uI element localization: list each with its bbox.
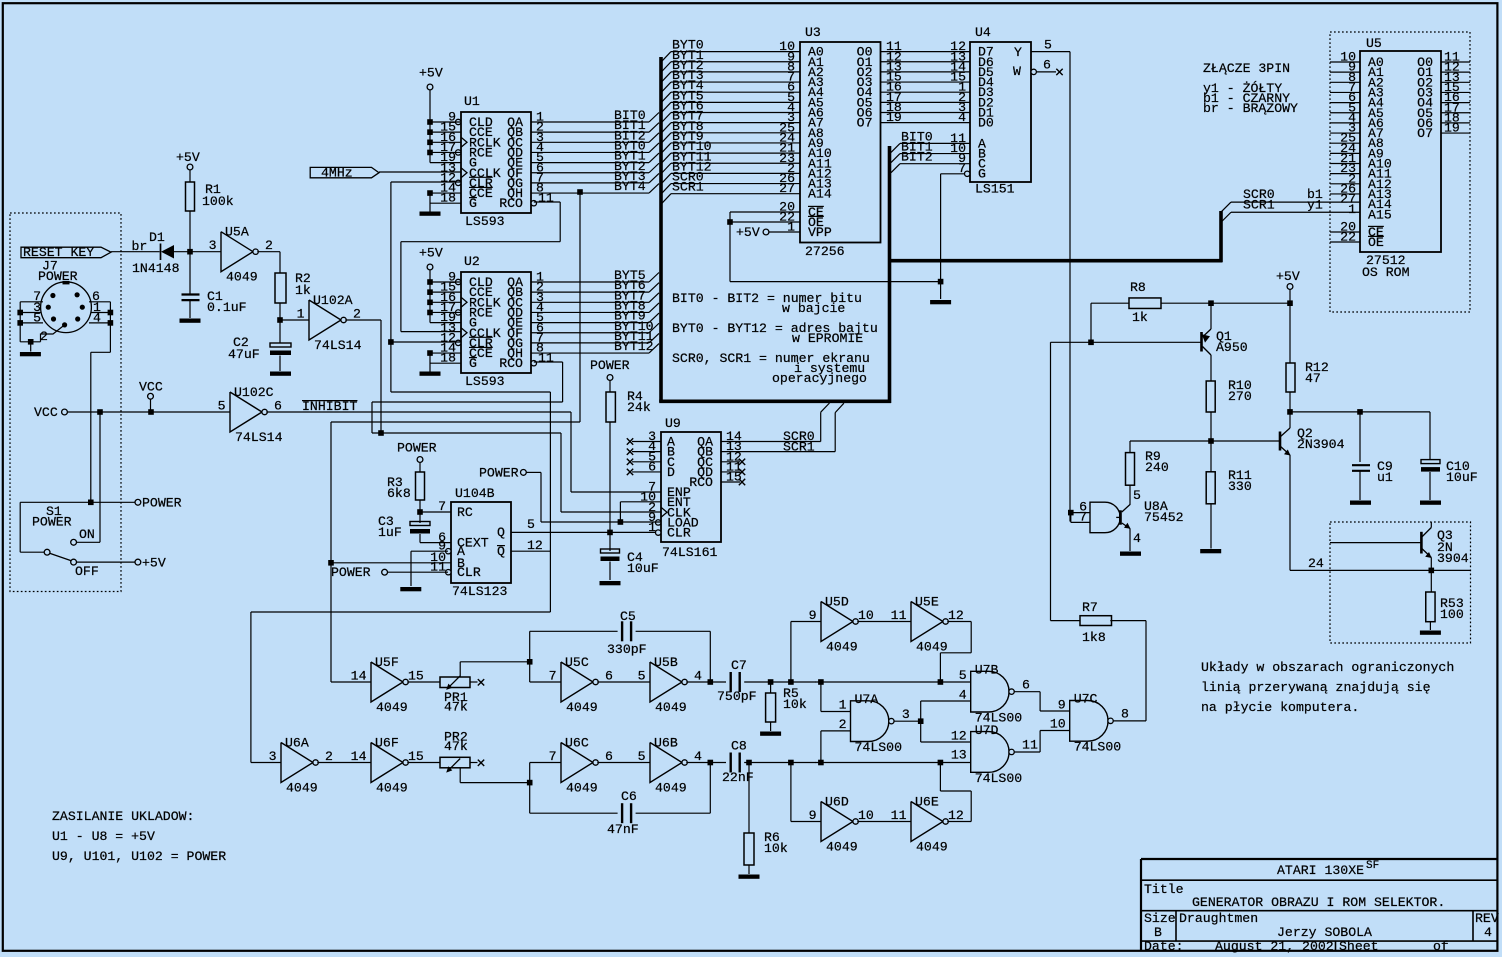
svg-text:5: 5 (527, 517, 535, 532)
svg-text:24k: 24k (627, 400, 651, 415)
svg-text:5: 5 (1133, 488, 1141, 503)
svg-text:74LS00: 74LS00 (855, 740, 903, 755)
svg-text:240: 240 (1145, 460, 1169, 475)
svg-text:6: 6 (1043, 58, 1051, 73)
svg-text:11: 11 (538, 351, 554, 366)
svg-text:74LS161: 74LS161 (662, 545, 717, 560)
svg-text:VCC: VCC (139, 380, 163, 395)
svg-text:1k: 1k (1132, 310, 1148, 325)
svg-text:3: 3 (209, 238, 217, 253)
svg-text:270: 270 (1228, 389, 1252, 404)
svg-text:linią przerywaną znajdują się: linią przerywaną znajdują się (1201, 680, 1431, 695)
svg-text:7: 7 (1079, 510, 1087, 525)
svg-text:RCO: RCO (689, 475, 713, 490)
svg-text:CLR: CLR (667, 526, 691, 541)
svg-text:4049: 4049 (286, 781, 318, 796)
svg-text:10k: 10k (783, 697, 807, 712)
svg-text:w bajcie: w bajcie (782, 301, 845, 316)
svg-text:LS593: LS593 (465, 374, 505, 389)
svg-text:4: 4 (1484, 925, 1492, 940)
svg-text:ATARI 130XE: ATARI 130XE (1277, 863, 1364, 878)
svg-text:u1: u1 (1377, 470, 1393, 485)
svg-text:U5D: U5D (825, 595, 849, 610)
svg-text:1: 1 (839, 698, 847, 713)
svg-text:BYT12: BYT12 (614, 339, 654, 354)
svg-text:75452: 75452 (1144, 510, 1184, 525)
svg-text:13: 13 (951, 748, 967, 763)
svg-text:7: 7 (549, 668, 557, 683)
svg-text:U5A: U5A (225, 225, 249, 240)
svg-text:Q: Q (497, 525, 505, 540)
svg-text:3: 3 (269, 749, 277, 764)
svg-text:U9, U101, U102 = POWER: U9, U101, U102 = POWER (52, 849, 226, 864)
svg-text:9: 9 (809, 608, 817, 623)
svg-text:D0: D0 (978, 116, 994, 131)
svg-text:+5V: +5V (176, 150, 200, 165)
svg-text:BIT2: BIT2 (901, 150, 933, 165)
svg-text:9: 9 (1058, 697, 1066, 712)
svg-text:7: 7 (438, 499, 446, 514)
svg-text:11: 11 (891, 808, 907, 823)
svg-text:4049: 4049 (376, 700, 408, 715)
svg-text:2: 2 (265, 238, 273, 253)
svg-text:4: 4 (1133, 531, 1141, 546)
svg-text:Q: Q (497, 544, 505, 559)
svg-text:w EPROMIE: w EPROMIE (792, 331, 863, 346)
svg-text:August 21, 2002: August 21, 2002 (1215, 939, 1334, 954)
svg-text:24: 24 (1308, 556, 1324, 571)
svg-text:11: 11 (1022, 738, 1038, 753)
svg-text:14: 14 (351, 668, 367, 683)
svg-text:POWER: POWER (331, 565, 371, 580)
svg-text:A14: A14 (808, 187, 832, 202)
svg-text:+5V: +5V (736, 225, 760, 240)
svg-text:1: 1 (297, 306, 305, 321)
svg-text:U1 - U8 = +5V: U1 - U8 = +5V (52, 829, 155, 844)
svg-text:U5: U5 (1366, 36, 1382, 51)
svg-text:U6A: U6A (285, 736, 309, 751)
svg-text:U1: U1 (464, 94, 480, 109)
svg-text:POWER: POWER (479, 466, 519, 481)
svg-text:4049: 4049 (655, 781, 687, 796)
svg-text:8: 8 (1121, 707, 1129, 722)
svg-text:330: 330 (1228, 479, 1252, 494)
svg-text:74LS00: 74LS00 (975, 771, 1023, 786)
svg-text:4049: 4049 (226, 270, 258, 285)
svg-text:9: 9 (809, 808, 817, 823)
svg-text:C7: C7 (731, 658, 747, 673)
svg-text:O7: O7 (857, 116, 873, 131)
svg-text:A950: A950 (1216, 340, 1248, 355)
svg-text:G: G (978, 167, 986, 182)
svg-text:SCR1: SCR1 (783, 440, 815, 455)
svg-text:47k: 47k (444, 700, 468, 715)
svg-text:W: W (1013, 64, 1021, 79)
svg-text:POWER: POWER (38, 269, 78, 284)
svg-text:Jerzy SOBOLA: Jerzy SOBOLA (1277, 925, 1372, 940)
svg-text:4049: 4049 (566, 700, 598, 715)
svg-text:10uF: 10uF (1446, 470, 1478, 485)
svg-text:Draughtmen: Draughtmen (1179, 911, 1258, 926)
svg-text:10: 10 (858, 808, 874, 823)
svg-text:+5V: +5V (419, 246, 443, 261)
svg-text:br - BRĄZOWY: br - BRĄZOWY (1203, 101, 1298, 116)
svg-text:REV: REV (1475, 911, 1499, 926)
svg-text:5: 5 (638, 749, 646, 764)
svg-text:4: 4 (694, 749, 702, 764)
svg-text:U6F: U6F (375, 736, 399, 751)
svg-text:1N4148: 1N4148 (132, 261, 180, 276)
svg-text:R7: R7 (1082, 600, 1098, 615)
svg-text:OE: OE (1368, 235, 1384, 250)
svg-text:47: 47 (1305, 371, 1321, 386)
svg-text:15: 15 (408, 749, 424, 764)
svg-text:B: B (1154, 925, 1162, 940)
svg-text:SCR1: SCR1 (1243, 197, 1275, 212)
svg-text:1k8: 1k8 (1082, 630, 1106, 645)
svg-text:2: 2 (839, 717, 847, 732)
svg-text:R8: R8 (1130, 280, 1146, 295)
svg-text:4049: 4049 (916, 840, 948, 855)
svg-text:CLR: CLR (457, 565, 481, 580)
svg-text:ZASILANIE UKLADOW:: ZASILANIE UKLADOW: (52, 809, 194, 824)
svg-text:27: 27 (779, 181, 795, 196)
svg-text:RCO: RCO (499, 196, 523, 211)
svg-text:5: 5 (1044, 38, 1052, 53)
svg-text:of: of (1433, 939, 1449, 954)
svg-text:U6D: U6D (825, 795, 849, 810)
svg-text:VCC: VCC (34, 405, 58, 420)
svg-text:SF: SF (1366, 860, 1379, 872)
svg-text:operacyjnego: operacyjnego (772, 371, 867, 386)
svg-text:U9: U9 (665, 416, 681, 431)
svg-text:4: 4 (694, 668, 702, 683)
svg-text:RCO: RCO (499, 356, 523, 371)
svg-text:Title: Title (1144, 882, 1184, 897)
svg-text:10: 10 (858, 608, 874, 623)
svg-text:C5: C5 (620, 609, 636, 624)
svg-text:Sheet: Sheet (1339, 939, 1379, 954)
svg-text:BYT4: BYT4 (614, 179, 646, 194)
svg-text:15: 15 (408, 668, 424, 683)
svg-text:1uF: 1uF (378, 525, 402, 540)
svg-text:10: 10 (1050, 717, 1066, 732)
svg-text:5: 5 (959, 668, 967, 683)
svg-text:D1: D1 (149, 230, 165, 245)
svg-text:7: 7 (549, 749, 557, 764)
svg-text:U102C: U102C (234, 385, 274, 400)
svg-text:U7D: U7D (975, 723, 999, 738)
svg-text:U6C: U6C (565, 736, 589, 751)
svg-text:ZŁĄCZE 3PIN: ZŁĄCZE 3PIN (1203, 61, 1290, 76)
svg-text:OS ROM: OS ROM (1362, 265, 1410, 280)
svg-text:POWER: POWER (590, 358, 630, 373)
svg-text:12: 12 (948, 808, 964, 823)
svg-text:O7: O7 (1417, 126, 1433, 141)
svg-text:6: 6 (605, 749, 613, 764)
svg-text:LS593: LS593 (465, 214, 505, 229)
svg-text:100: 100 (1440, 607, 1464, 622)
svg-text:U5B: U5B (654, 655, 678, 670)
svg-text:VPP: VPP (808, 225, 832, 240)
svg-text:na płycie komputera.: na płycie komputera. (1201, 700, 1359, 715)
svg-text:3: 3 (902, 707, 910, 722)
svg-text:4049: 4049 (376, 781, 408, 796)
svg-text:6: 6 (274, 398, 282, 413)
svg-text:U3: U3 (805, 25, 821, 40)
svg-text:6k8: 6k8 (387, 486, 411, 501)
svg-text:4MHz: 4MHz (321, 166, 353, 181)
svg-text:POWER: POWER (142, 496, 182, 511)
svg-text:2: 2 (40, 329, 48, 344)
svg-text:Y: Y (1014, 45, 1022, 60)
svg-text:11: 11 (891, 608, 907, 623)
svg-text:U6E: U6E (915, 795, 939, 810)
svg-text:6: 6 (1022, 677, 1030, 692)
svg-text:LS151: LS151 (975, 182, 1015, 197)
svg-text:OFF: OFF (75, 564, 99, 579)
svg-text:U5C: U5C (565, 655, 589, 670)
svg-text:4049: 4049 (655, 700, 687, 715)
svg-text:6: 6 (605, 668, 613, 683)
svg-text:1k: 1k (295, 283, 311, 298)
svg-text:C6: C6 (621, 789, 637, 804)
svg-text:U7C: U7C (1074, 692, 1098, 707)
svg-text:POWER: POWER (397, 441, 437, 456)
svg-text:11: 11 (538, 191, 554, 206)
svg-text:4049: 4049 (826, 640, 858, 655)
svg-text:Date:: Date: (1144, 939, 1184, 954)
svg-text:+5V: +5V (1276, 269, 1300, 284)
svg-text:2N3904: 2N3904 (1297, 437, 1345, 452)
svg-text:74LS123: 74LS123 (452, 584, 507, 599)
svg-text:U6B: U6B (654, 736, 678, 751)
svg-text:GENERATOR OBRAZU I ROM SELEKTO: GENERATOR OBRAZU I ROM SELEKTOR. (1192, 895, 1445, 910)
svg-text:+5V: +5V (142, 556, 166, 571)
svg-text:+5V: +5V (419, 66, 443, 81)
svg-text:U7B: U7B (975, 663, 999, 678)
svg-text:5: 5 (33, 311, 41, 326)
svg-text:330pF: 330pF (607, 642, 647, 657)
svg-text:br: br (132, 239, 148, 254)
svg-text:74LS14: 74LS14 (235, 430, 283, 445)
svg-text:10k: 10k (764, 841, 788, 856)
svg-text:G: G (469, 356, 477, 371)
svg-text:750pF: 750pF (717, 689, 757, 704)
svg-text:Size: Size (1144, 911, 1176, 926)
svg-text:4049: 4049 (566, 781, 598, 796)
svg-text:10uF: 10uF (627, 561, 659, 576)
svg-text:U5F: U5F (375, 655, 399, 670)
svg-text:POWER: POWER (32, 515, 72, 530)
svg-text:U5E: U5E (915, 595, 939, 610)
svg-text:27256: 27256 (805, 244, 845, 259)
svg-text:100k: 100k (202, 194, 234, 209)
svg-text:12: 12 (948, 608, 964, 623)
svg-text:ON: ON (79, 527, 95, 542)
svg-text:5: 5 (218, 398, 226, 413)
svg-text:G: G (469, 196, 477, 211)
svg-text:A15: A15 (1368, 207, 1392, 222)
svg-text:1: 1 (1348, 202, 1356, 217)
svg-text:U2: U2 (464, 254, 480, 269)
svg-text:4049: 4049 (826, 840, 858, 855)
svg-text:74LS00: 74LS00 (1074, 740, 1122, 755)
svg-text:74LS14: 74LS14 (314, 338, 362, 353)
svg-text:4: 4 (959, 687, 967, 702)
svg-text:RC: RC (457, 505, 473, 520)
svg-text:2: 2 (353, 306, 361, 321)
svg-text:47k: 47k (444, 739, 468, 754)
svg-text:14: 14 (351, 749, 367, 764)
svg-text:0.1uF: 0.1uF (207, 300, 247, 315)
svg-text:2: 2 (325, 749, 333, 764)
svg-text:12: 12 (951, 728, 967, 743)
svg-text:C8: C8 (731, 739, 747, 754)
svg-text:y1: y1 (1307, 197, 1323, 212)
svg-text:RESET KEY: RESET KEY (23, 245, 94, 260)
svg-text:U104B: U104B (455, 486, 495, 501)
svg-text:Układy w obszarach ograniczony: Układy w obszarach ograniczonych (1201, 660, 1454, 675)
svg-text:47uF: 47uF (228, 347, 260, 362)
svg-text:3904: 3904 (1437, 551, 1469, 566)
svg-text:SCR1: SCR1 (672, 180, 704, 195)
svg-text:D: D (667, 465, 675, 480)
svg-text:U4: U4 (975, 25, 991, 40)
svg-text:47nF: 47nF (607, 822, 639, 837)
svg-text:U7A: U7A (855, 692, 879, 707)
svg-text:U102A: U102A (313, 293, 353, 308)
svg-text:5: 5 (638, 668, 646, 683)
